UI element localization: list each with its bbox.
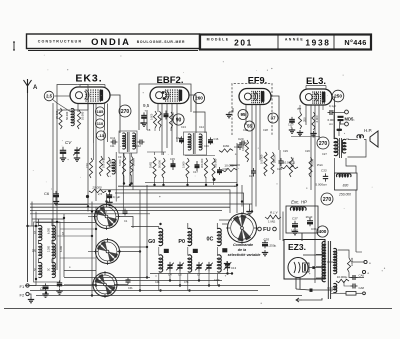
resistor R osc 25000 — [89, 186, 106, 193]
svg-text:50.000: 50.000 — [132, 158, 136, 166]
capacitor C osc — [106, 193, 120, 206]
svg-text:C28: C28 — [263, 128, 268, 132]
svg-text:C14: C14 — [199, 125, 204, 129]
label P0 — [178, 239, 185, 245]
resistor R18 350 — [297, 112, 307, 136]
ground C37 — [292, 229, 298, 235]
svg-text:EK3.: EK3. — [75, 73, 102, 85]
svg-text:1MΩ: 1MΩ — [223, 144, 230, 148]
wire y136 el3 — [291, 136, 320, 138]
wire y236 stub — [57, 235, 92, 237]
speaker HP label — [364, 128, 372, 133]
svg-text:MD5.: MD5. — [345, 117, 355, 122]
volume wiper dot — [213, 178, 216, 181]
svg-text:25.000: 25.000 — [91, 186, 102, 190]
IF transformer T2 box — [184, 132, 207, 155]
svg-text:1 MΩ: 1 MΩ — [268, 220, 276, 224]
capacitor C2 — [43, 283, 49, 290]
voltage 90 — [173, 114, 184, 125]
coil OC upper — [217, 228, 221, 245]
title bracket mark — [13, 42, 15, 50]
resistor R15 — [271, 152, 277, 174]
wire x96 long — [95, 207, 97, 286]
capacitor C11 — [111, 140, 118, 145]
svg-text:270: 270 — [319, 141, 328, 147]
wire input junction — [57, 109, 88, 111]
svg-text:5.000: 5.000 — [182, 161, 186, 168]
svg-text:C34: C34 — [311, 227, 317, 231]
wire speaker top — [346, 138, 349, 140]
tuning gang section 1 — [93, 203, 120, 230]
label Prim — [317, 163, 324, 167]
resistor R osc a — [118, 156, 126, 176]
resistor R11 1M — [219, 144, 233, 152]
svg-text:50.000: 50.000 — [172, 112, 175, 120]
capacitor C17 — [193, 161, 200, 174]
wire x92 long — [91, 202, 93, 296]
voltage 250 — [332, 90, 344, 102]
tube label EF9 — [248, 76, 267, 86]
svg-text:de la: de la — [238, 248, 246, 252]
EF9 shield box — [0, 0, 1, 1]
wire x123 — [122, 153, 124, 212]
wire G0 top — [131, 227, 159, 230]
tube EF9 — [239, 89, 271, 105]
svg-text:C35: C35 — [264, 238, 270, 242]
svg-text:C26: C26 — [305, 149, 310, 153]
resistor R8 — [158, 158, 166, 178]
antenna A — [24, 79, 39, 93]
resistor R10 — [200, 158, 208, 178]
title text CONSTRUCTEUR — [38, 39, 83, 43]
resistor R17 70000 — [309, 157, 315, 177]
IF T2 secondary — [199, 134, 202, 150]
label 5000cm right — [316, 183, 328, 187]
left coil pair B — [33, 243, 55, 258]
tiny labels 3 — [243, 128, 327, 156]
capacitor CA6 — [351, 274, 365, 281]
capacitor C35 — [262, 240, 277, 248]
wire F1 — [29, 285, 36, 287]
voltage 400 — [317, 226, 328, 237]
svg-text:C12: C12 — [136, 144, 141, 148]
svg-text:110: 110 — [97, 121, 104, 126]
svg-text:C6: C6 — [44, 191, 50, 196]
capacitor C3 — [56, 280, 62, 294]
wire EK3 grid to gang — [94, 140, 97, 201]
resistor R pad 2 — [99, 156, 105, 176]
wire left coil verticals — [32, 202, 52, 286]
wire bus y190 — [100, 190, 230, 213]
svg-text:830: 830 — [343, 184, 349, 188]
svg-text:EF9.: EF9. — [248, 76, 267, 86]
capacitor C16 — [208, 137, 219, 145]
power transformer core — [328, 241, 330, 299]
wire coil bottoms — [159, 274, 218, 291]
svg-text:350: 350 — [302, 117, 306, 122]
wire C25 to term — [334, 112, 345, 114]
capacitor C21 — [249, 168, 256, 178]
wire R20 to terminal — [349, 272, 364, 278]
wire speaker — [348, 140, 367, 158]
svg-text:270: 270 — [121, 109, 130, 115]
ground C22 — [289, 128, 295, 134]
wire x57 long — [56, 205, 58, 270]
label Exc HP — [291, 200, 307, 205]
wire osc section — [103, 130, 105, 160]
fuse secteur — [340, 292, 365, 296]
svg-text:0,1µF: 0,1µF — [329, 104, 336, 108]
svg-text:A: A — [33, 85, 38, 91]
svg-text:100.000: 100.000 — [102, 158, 106, 168]
voltage 55 — [245, 121, 255, 131]
resistor R 10000 input — [77, 110, 84, 129]
svg-text:50.000: 50.000 — [65, 111, 69, 120]
IF T1 core — [127, 132, 129, 152]
wire EL3 k — [322, 105, 324, 110]
svg-text:250.000: 250.000 — [338, 193, 351, 197]
wire ebf2 cluster bottoms — [155, 128, 171, 131]
wire fuse left — [331, 292, 340, 294]
wire transformer right top — [338, 250, 349, 258]
excitation box — [286, 206, 318, 233]
capacitor C6 — [53, 191, 59, 199]
svg-text:F1: F1 — [20, 284, 25, 289]
antenna lead wire — [27, 93, 29, 282]
wire y258 stub — [60, 257, 96, 259]
bus wire y295 — [36, 295, 302, 297]
resistor R6 ebf2 — [158, 111, 163, 128]
terminal sector b — [362, 270, 369, 275]
EF9 shield box — [232, 84, 272, 136]
resistor R16 10000 — [281, 161, 298, 169]
tiny labels 4 — [124, 219, 220, 290]
voltage 270 b — [317, 137, 329, 149]
tube label EBF2 — [157, 75, 184, 86]
bus wire y201 — [30, 203, 252, 205]
EL3 shield top — [306, 86, 326, 89]
osc coil L5 — [112, 159, 115, 174]
wire EL3 anode to output transformer — [332, 97, 335, 139]
wire output tr to box — [334, 158, 336, 173]
trimmer G0 a — [166, 262, 174, 271]
excitation coil — [290, 207, 306, 211]
title text MODELE — [207, 37, 230, 42]
svg-text:30.000: 30.000 — [160, 112, 163, 120]
wire blob down — [338, 122, 341, 137]
svg-text:P0: P0 — [178, 239, 185, 245]
resistor R12 10000 — [222, 164, 237, 172]
svg-text:2,5: 2,5 — [97, 192, 103, 196]
wire gang2 link — [120, 246, 148, 248]
EF9 anode wire — [271, 96, 279, 140]
gang trimmer 1 — [123, 209, 128, 216]
voltage 260 — [193, 92, 204, 103]
wire antenna to coil — [52, 99, 71, 112]
wire gang1 to coil — [106, 193, 108, 205]
voltage 270 c — [321, 193, 333, 205]
svg-text:CV: CV — [65, 140, 72, 145]
capacitor C22 — [288, 107, 302, 127]
resistor R21 10000h — [336, 275, 349, 283]
bus wire y290 — [30, 290, 258, 292]
label C35 — [264, 238, 270, 242]
wire P0 mid — [187, 247, 189, 256]
svg-text:5.000: 5.000 — [118, 159, 122, 166]
IF transformer T1 box — [119, 131, 137, 153]
ground C6 — [53, 199, 59, 205]
wire EF9 leads extend — [252, 190, 256, 212]
svg-text:C29: C29 — [283, 149, 288, 153]
svg-text:95: 95 — [240, 112, 246, 117]
terminal FU left — [258, 227, 262, 231]
svg-text:C8: C8 — [147, 128, 151, 132]
wire bus y196 — [115, 193, 244, 213]
title text 201 — [234, 37, 253, 47]
svg-text:C4b: C4b — [155, 281, 160, 284]
svg-text:C13: C13 — [181, 125, 186, 129]
wire bottom mid y280 — [96, 280, 222, 282]
svg-text:Commande: Commande — [233, 243, 253, 247]
svg-text:R.1.V: R.1.V — [270, 211, 279, 215]
resistor R7 — [149, 157, 157, 178]
resistor R5 ebf2 — [150, 111, 156, 128]
svg-text:BOULOGNE-SUR-MER: BOULOGNE-SUR-MER — [137, 40, 186, 44]
IF T2 primary — [188, 134, 191, 150]
svg-text:201: 201 — [234, 37, 253, 47]
wire P0 top — [187, 223, 189, 229]
capacitor C23 6000cm blob — [338, 116, 344, 121]
IF T1 primary — [123, 133, 126, 149]
label 830 — [343, 184, 349, 188]
svg-text:100.000: 100.000 — [260, 154, 264, 164]
ground C4 — [60, 156, 66, 162]
resistor R 500000 — [289, 157, 295, 177]
capacitor CA8 — [351, 284, 365, 291]
capacitor C42 ebf2 — [164, 111, 169, 120]
wire x116 — [115, 152, 117, 202]
svg-text:C14: C14 — [176, 136, 181, 140]
svg-text:6.000: 6.000 — [60, 245, 63, 252]
bus wire y285 — [25, 285, 270, 287]
transformer bottom wire — [302, 298, 322, 300]
svg-text:500.000: 500.000 — [291, 157, 295, 167]
wire left coil horizontals — [28, 219, 97, 226]
title text ONDIA — [91, 36, 131, 47]
label C37 — [292, 217, 298, 221]
svg-text:ANNÉE: ANNÉE — [285, 37, 304, 42]
label G0 — [148, 239, 155, 245]
wire trimmer drops — [170, 270, 228, 286]
power transformer heater winding — [334, 283, 337, 292]
voltage 37 — [268, 113, 278, 123]
tiny labels 1 — [110, 125, 209, 161]
svg-text:250µ: 250µ — [270, 244, 277, 248]
resistor R1V — [265, 215, 281, 219]
terminal sector a — [364, 260, 371, 265]
trimmer P0 a — [195, 262, 203, 271]
svg-text:10.000: 10.000 — [350, 257, 354, 266]
svg-text:4.000: 4.000 — [315, 115, 319, 122]
wire x64 vert — [63, 214, 65, 277]
title text 1938 — [305, 37, 330, 47]
wire 2,5 to tube — [55, 95, 71, 97]
svg-text:H.P.: H.P. — [364, 128, 372, 133]
field coil winding — [336, 174, 351, 177]
capacitor C29 — [277, 158, 284, 171]
svg-text:10.000: 10.000 — [80, 111, 84, 120]
label 250000 — [338, 193, 351, 197]
capacitor C20 — [238, 137, 247, 146]
vertical bus x300r — [355, 190, 357, 252]
EK3 shield top — [80, 85, 105, 88]
svg-text:N°446: N°446 — [344, 38, 366, 47]
left coil pair A — [33, 225, 55, 240]
svg-text:Prim: Prim — [317, 163, 324, 167]
wire EF9 anode bus — [278, 140, 280, 150]
svg-text:5.000cm: 5.000cm — [316, 183, 328, 187]
svg-text:C21: C21 — [249, 174, 255, 178]
left coil pair C — [33, 262, 55, 277]
selectivity caption — [228, 243, 261, 257]
bus wire y185 — [118, 185, 237, 187]
wire B plus down — [356, 251, 362, 253]
EF9 leads — [246, 105, 260, 191]
label 2,5 osc — [86, 190, 111, 198]
capacitor C12 — [138, 140, 145, 145]
resistor R9 — [182, 158, 190, 178]
svg-text:C11: C11 — [110, 136, 116, 140]
resistor R14 — [260, 152, 268, 176]
resistor R volume — [212, 158, 218, 178]
label FU — [263, 227, 271, 233]
label C13 — [231, 266, 237, 270]
svg-text:25.245: 25.245 — [109, 160, 113, 168]
EZ3 label — [288, 242, 306, 252]
capacitor C4 fixed — [60, 147, 66, 156]
label 6000cm — [328, 118, 336, 126]
svg-text:C20: C20 — [238, 137, 244, 141]
svg-text:6.000: 6.000 — [48, 227, 51, 234]
tube EL3 — [300, 89, 332, 105]
wire x88 down — [87, 205, 89, 212]
svg-text:C18: C18 — [243, 128, 248, 132]
wire EL3 R18 stub — [300, 105, 314, 136]
power transformer HT secondary — [334, 248, 337, 273]
wire mid right y165 — [230, 165, 237, 167]
svg-text:CONSTRUCTEUR: CONSTRUCTEUR — [38, 39, 83, 43]
left coil shield box — [34, 222, 61, 282]
wire EBF2 right corner — [193, 112, 205, 133]
wire mid right x242 — [241, 185, 243, 207]
wire osc tops — [124, 153, 132, 156]
svg-text:C11: C11 — [110, 144, 115, 148]
svg-text:C17: C17 — [193, 170, 198, 174]
label C11 — [110, 136, 116, 140]
svg-text:C7b: C7b — [184, 281, 189, 284]
EL3 leads — [306, 105, 319, 283]
scan speckles — [33, 55, 385, 304]
svg-text:C137: C137 — [288, 124, 294, 127]
resistor R6b ebf2 — [169, 112, 175, 128]
svg-text:C27: C27 — [322, 152, 327, 156]
resistor R19 4000 — [310, 112, 319, 137]
coil G0 lower — [159, 249, 169, 272]
ground transformer — [296, 298, 302, 302]
EZ3 box — [284, 240, 325, 280]
terminal MDS b — [345, 122, 349, 126]
svg-text:MODÈLE: MODÈLE — [207, 37, 230, 42]
capacitor C14 — [176, 136, 184, 144]
wire x283 down — [282, 212, 284, 242]
svg-text:Exc. HP: Exc. HP — [291, 200, 307, 205]
voltage 110 — [95, 119, 104, 128]
label 9,5 EBF2 — [143, 103, 150, 108]
trimmer CV1 — [73, 147, 81, 156]
ground C2 — [42, 292, 48, 298]
svg-text:90: 90 — [176, 117, 182, 123]
svg-text:300.000: 300.000 — [200, 158, 204, 168]
wire MDS to term2 — [341, 121, 345, 124]
svg-text:0C: 0C — [207, 237, 214, 243]
trimmer OC — [224, 261, 232, 270]
wire x133 — [132, 160, 134, 190]
label Cc — [197, 273, 201, 277]
svg-text:5.000: 5.000 — [150, 113, 153, 120]
svg-text:10.000µ: 10.000µ — [337, 275, 348, 279]
capacitor C41 ebf2 — [140, 112, 147, 125]
wire x53 long — [52, 103, 54, 270]
svg-text:C37: C37 — [292, 217, 298, 221]
tiny labels 2 — [31, 232, 65, 271]
label CV — [65, 140, 72, 145]
label Cb — [178, 273, 182, 277]
bus wire y270 — [64, 270, 96, 272]
svg-text:G0: G0 — [148, 239, 155, 245]
gang left stubs — [64, 217, 96, 285]
label MDS — [345, 117, 355, 122]
title block left box — [27, 34, 200, 51]
svg-text:750.000: 750.000 — [214, 158, 218, 168]
ground CV1 — [74, 156, 80, 162]
blob below MDS — [337, 129, 343, 131]
bus wire y277 — [64, 277, 150, 279]
resistor R pad 3 — [107, 157, 113, 177]
wire y229 stub — [60, 228, 95, 230]
capacitor C34 — [306, 215, 317, 231]
svg-text:ONDIA: ONDIA — [91, 36, 131, 47]
EBF2 anode wire — [189, 95, 196, 133]
ground C41 — [141, 121, 147, 127]
svg-text:sélectivité variable: sélectivité variable — [228, 253, 261, 257]
title text BOULOGNE-SUR-MER — [137, 40, 186, 44]
tube label EK3 — [75, 73, 102, 85]
EK3 leads — [78, 104, 108, 144]
vertical bus x147 — [146, 185, 148, 277]
svg-text:EZ3.: EZ3. — [288, 242, 306, 252]
resistor R20 10000v — [347, 257, 354, 272]
svg-text:C10b: C10b — [214, 279, 220, 282]
vertical bus x140 — [139, 190, 141, 290]
svg-text:1MΩ: 1MΩ — [149, 162, 153, 168]
svg-text:400: 400 — [319, 229, 327, 234]
coil P0 upper — [188, 228, 192, 245]
svg-text:F2: F2 — [20, 293, 25, 298]
svg-text:37: 37 — [270, 116, 276, 121]
svg-text:C16: C16 — [204, 144, 209, 148]
svg-text:270: 270 — [323, 197, 332, 203]
wire y155 run — [185, 155, 215, 157]
